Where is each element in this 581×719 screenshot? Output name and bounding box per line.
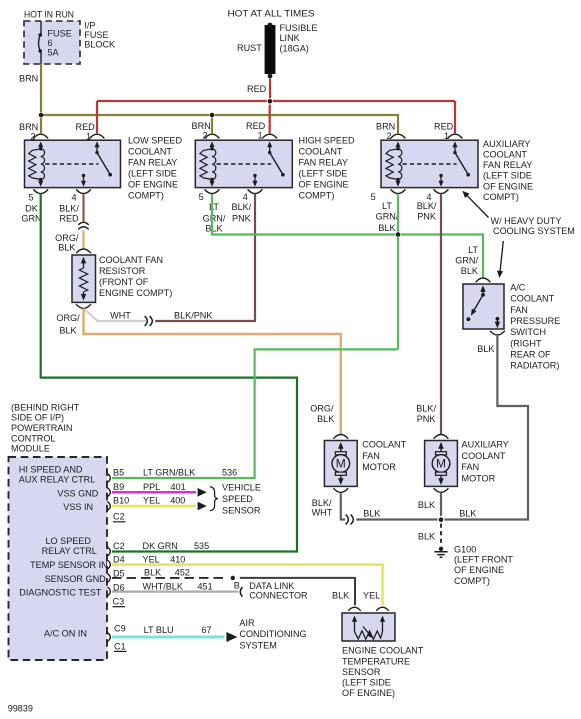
PCM pin B9 label: [113, 482, 124, 492]
relay K3 pin 5 label: [371, 192, 376, 202]
wire ORG/BLK into resistor: [82, 231, 84, 250]
svg-text:BLK/: BLK/: [417, 201, 437, 211]
svg-text:OF ENGINE: OF ENGINE: [128, 180, 178, 190]
svg-text:MODULE: MODULE: [11, 444, 50, 454]
label BLK 452: [144, 568, 190, 578]
svg-text:ENGINE COMPT): ENGINE COMPT): [99, 288, 172, 298]
svg-text:TEMP SENSOR IN: TEMP SENSOR IN: [30, 560, 108, 570]
label BLK (right of junction): [459, 508, 476, 518]
resistor R1 coolant fan resistor: [72, 249, 96, 308]
wire RED from fusible link: [269, 79, 271, 99]
label LT BLU 67: [144, 625, 212, 635]
svg-text:C2: C2: [113, 541, 125, 551]
PCM connector C1 label (underlined): [114, 641, 127, 651]
pressure switch S1 A/C coolant fan pressure switch: [463, 278, 505, 335]
wire YEL 410 to temp sensor: [112, 565, 383, 606]
svg-text:BLK/PNK: BLK/PNK: [174, 310, 212, 320]
label RED (below fusible link): [247, 84, 267, 94]
svg-text:YEL: YEL: [143, 554, 160, 564]
label BRN (fuse output wire): [19, 74, 38, 84]
PCM internal label HI SPEED AND AUX RELAY CTRL: [19, 465, 95, 485]
svg-text:ORG/: ORG/: [310, 404, 334, 414]
svg-text:BLK: BLK: [58, 243, 75, 253]
label BLK/PNK (K2 pin4 wire): [232, 202, 252, 223]
svg-text:WHT: WHT: [110, 311, 131, 321]
svg-text:YEL: YEL: [363, 591, 380, 601]
svg-text:ORG/: ORG/: [56, 313, 80, 323]
label LT GRN/BLK (K3 pin5 wire): [376, 201, 399, 233]
relay K3 auxiliary coolant fan relay: [381, 134, 478, 193]
svg-text:451: 451: [198, 581, 213, 591]
svg-text:FAN: FAN: [462, 462, 480, 472]
wire BLK splice to ground junction: [356, 518, 437, 520]
svg-text:(LEFT SIDE: (LEFT SIDE: [299, 169, 348, 179]
svg-text:LINK: LINK: [280, 33, 300, 43]
relay K2 pin 4 label: [243, 192, 248, 202]
connector in motor ground wire: [346, 515, 354, 525]
svg-text:(LEFT SIDE: (LEFT SIDE: [342, 678, 391, 688]
svg-text:M: M: [336, 457, 346, 471]
svg-text:PNK: PNK: [417, 414, 436, 424]
wire LT GRN/BLK from K2 pin5: [212, 194, 395, 234]
wire ORG/BLK resistor to coolant fan motor: [84, 309, 341, 435]
svg-text:BRN: BRN: [19, 122, 38, 132]
PCM pin C9 label: [114, 624, 126, 634]
PCM pin D5 label: [113, 568, 125, 578]
svg-text:COMPT): COMPT): [128, 191, 164, 201]
svg-text:(LEFT SIDE: (LEFT SIDE: [128, 169, 177, 179]
svg-text:A/C: A/C: [510, 283, 526, 293]
svg-text:LT BLU: LT BLU: [144, 625, 174, 635]
svg-text:VEHICLE: VEHICLE: [222, 483, 261, 493]
wire BLK from pressure switch: [445, 336, 529, 520]
svg-text:DK GRN: DK GRN: [143, 541, 178, 551]
svg-text:PPL: PPL: [143, 482, 160, 492]
relay K2 high speed coolant fan relay: [195, 134, 292, 193]
svg-text:BLK: BLK: [461, 266, 478, 276]
wire BLK/PNK to K2 pin4: [155, 194, 255, 321]
svg-text:1: 1: [86, 131, 91, 141]
svg-text:SENSOR GND: SENSOR GND: [45, 574, 107, 584]
svg-text:BLK/: BLK/: [232, 202, 252, 212]
svg-text:GRN: GRN: [21, 213, 41, 223]
svg-text:BRN: BRN: [19, 74, 38, 84]
junction BRN at fuse drop: [39, 113, 44, 118]
svg-text:RED: RED: [247, 84, 267, 94]
svg-text:PNK: PNK: [232, 213, 251, 223]
svg-text:LT GRN/BLK: LT GRN/BLK: [143, 468, 195, 478]
svg-text:TEMPERATURE: TEMPERATURE: [342, 656, 410, 666]
svg-text:BLK: BLK: [477, 344, 494, 354]
power feed label HOT AT ALL TIMES: [228, 9, 315, 19]
junction BRN above high speed relay: [210, 113, 215, 118]
svg-text:GRN/: GRN/: [203, 213, 226, 223]
svg-text:67: 67: [202, 625, 212, 635]
note W/ HEAVY DUTY COOLING SYSTEM: [491, 216, 575, 236]
svg-text:SWITCH: SWITCH: [510, 327, 546, 337]
motor M1 name label: [362, 439, 406, 472]
wire LT GRN/BLK to PCM B5 (ckt 536): [112, 349, 398, 478]
temp sensor RT1 engine coolant temperature sensor: [342, 607, 395, 641]
svg-text:4: 4: [243, 192, 248, 202]
callout arrow to pressure switch: [497, 241, 503, 278]
svg-text:FAN: FAN: [362, 451, 380, 461]
svg-text:YEL: YEL: [143, 496, 160, 506]
svg-text:CONTROL: CONTROL: [11, 433, 55, 443]
label VEHICLE SPEED SENSOR: [222, 483, 261, 516]
label DATA LINK CONNECTOR: [249, 581, 308, 601]
label BLK/PNK (wire to K2 pin4): [174, 310, 212, 320]
PCM pin B5 label: [113, 468, 124, 478]
svg-text:RADIATOR): RADIATOR): [510, 361, 559, 371]
PCM pin D4 label: [113, 554, 125, 564]
svg-text:2: 2: [31, 131, 36, 141]
relay K2 pin 1 label RED: [246, 121, 266, 141]
svg-text:5: 5: [199, 192, 204, 202]
svg-text:(RIGHT: (RIGHT: [510, 338, 542, 348]
svg-text:SIDE OF I/P): SIDE OF I/P): [11, 413, 64, 423]
svg-text:535: 535: [194, 541, 209, 551]
label YEL 400: [143, 496, 185, 506]
temp sensor RT1 name label: [342, 646, 424, 699]
relay K1 low speed coolant fan relay: [25, 134, 121, 193]
motor M2 name label: [462, 439, 509, 483]
PCM internal label VSS IN: [63, 502, 93, 512]
label DK GRN (K1 pin5 wire): [21, 204, 41, 224]
svg-text:410: 410: [170, 554, 185, 564]
wire BLK dashed to G100: [440, 524, 442, 545]
svg-text:FAN RELAY: FAN RELAY: [128, 158, 177, 168]
arrow to air conditioning system: [226, 632, 237, 642]
svg-text:LT: LT: [382, 201, 392, 211]
svg-text:RUST: RUST: [237, 43, 262, 53]
motor M2 auxiliary coolant fan motor: [425, 435, 458, 493]
svg-text:5: 5: [29, 192, 34, 202]
wire LT GRN/BLK from K3 pin5: [397, 194, 399, 349]
svg-text:BLK: BLK: [363, 508, 380, 518]
wire BLK 452 dashed segment: [112, 577, 226, 579]
svg-text:DK: DK: [25, 204, 38, 214]
wire DK GRN from K1 pin5 to PCM C2: [41, 194, 297, 551]
svg-text:COOLANT: COOLANT: [362, 439, 406, 449]
svg-text:BLK: BLK: [378, 223, 395, 233]
svg-text:GRN/: GRN/: [455, 256, 478, 266]
svg-text:FUSIBLE: FUSIBLE: [280, 23, 318, 33]
svg-text:SPEED: SPEED: [222, 494, 253, 504]
svg-text:(FRONT OF: (FRONT OF: [99, 277, 149, 287]
relay K3 pin 1 label RED: [434, 122, 454, 142]
svg-text:BLK: BLK: [332, 591, 349, 601]
pressure switch S1 name label: [510, 283, 560, 371]
svg-text:BLK: BLK: [144, 568, 161, 578]
svg-text:DATA LINK: DATA LINK: [249, 581, 294, 591]
wire WHT from resistor: [84, 309, 147, 321]
label BLK (at temp sensor): [332, 591, 349, 601]
svg-text:FAN: FAN: [510, 305, 528, 315]
resistor R1 name label: [99, 255, 172, 298]
svg-text:1: 1: [258, 130, 263, 140]
wire YEL 400 to VSS: [112, 505, 196, 508]
svg-text:RED: RED: [59, 213, 79, 223]
svg-text:C3: C3: [113, 597, 125, 607]
svg-text:M: M: [436, 457, 446, 471]
svg-text:COOLANT: COOLANT: [128, 147, 172, 157]
relay K2 name label: [299, 136, 356, 201]
svg-text:WHT: WHT: [312, 507, 333, 517]
svg-text:WHT/BLK: WHT/BLK: [143, 581, 183, 591]
svg-text:D4: D4: [113, 554, 125, 564]
svg-text:SENSOR: SENSOR: [342, 667, 381, 677]
svg-text:AUX RELAY CTRL: AUX RELAY CTRL: [19, 474, 95, 484]
svg-text:LO SPEED: LO SPEED: [46, 536, 92, 546]
wire BLK from M2: [440, 493, 442, 516]
relay K1 pin 4 label: [72, 192, 77, 202]
svg-text:BLK: BLK: [418, 500, 435, 510]
label ORG/BLK (at coolant fan motor): [310, 404, 334, 424]
svg-text:99839: 99839: [8, 703, 33, 713]
svg-text:452: 452: [175, 568, 190, 578]
svg-text:FAN RELAY: FAN RELAY: [483, 160, 532, 170]
PCM internal label TEMP SENSOR IN: [30, 560, 108, 570]
wire BLK/PNK from K3 pin4 to aux motor: [440, 194, 442, 434]
relay K1 pin 2 label BRN: [19, 122, 38, 142]
svg-text:BLK/: BLK/: [416, 404, 436, 414]
data link connector pin B: [234, 581, 243, 597]
svg-text:PRESSURE: PRESSURE: [510, 316, 560, 326]
svg-text:A/C ON IN: A/C ON IN: [44, 629, 87, 639]
svg-text:RED: RED: [434, 122, 454, 132]
svg-text:HOT IN RUN: HOT IN RUN: [24, 10, 74, 20]
label BLK (ground leg): [418, 531, 435, 541]
label RUST: [237, 43, 262, 53]
svg-text:RESISTOR: RESISTOR: [99, 266, 146, 276]
svg-text:GRN/: GRN/: [376, 212, 399, 222]
svg-text:MOTOR: MOTOR: [362, 462, 396, 472]
label ORG/BLK (above resistor): [55, 233, 79, 252]
label AIR CONDITIONING SYSTEM: [239, 618, 306, 651]
label DK GRN 535: [143, 541, 210, 551]
PCM pin B10 label: [113, 496, 129, 506]
svg-text:FUSE: FUSE: [48, 28, 72, 38]
PCM connector C3 label (underlined): [113, 597, 126, 607]
label BLK/PNK (at aux motor): [416, 404, 436, 424]
junction in sensor ground wire: [231, 576, 235, 580]
svg-text:PNK: PNK: [417, 212, 436, 222]
brace for vehicle speed sensor: [210, 487, 218, 511]
fusible link (18GA) RUST: [265, 23, 276, 79]
wire BRN from fuse to bus: [40, 64, 42, 112]
svg-text:4: 4: [72, 192, 77, 202]
junction G100 node: [439, 517, 444, 522]
svg-text:C9: C9: [114, 624, 126, 634]
svg-text:COOLANT: COOLANT: [510, 294, 554, 304]
diagram number label: [8, 703, 33, 713]
PCM internal label VSS GND: [57, 489, 98, 499]
svg-text:(LEFT SIDE: (LEFT SIDE: [483, 171, 532, 181]
svg-text:ENGINE COOLANT: ENGINE COOLANT: [342, 646, 424, 656]
label FUSIBLE LINK (18GA): [280, 23, 318, 53]
svg-text:COOLANT FAN: COOLANT FAN: [99, 255, 163, 265]
svg-text:I/P: I/P: [84, 20, 95, 30]
label BLK (below M2): [418, 500, 435, 510]
svg-text:2: 2: [387, 131, 392, 141]
svg-text:400: 400: [170, 496, 185, 506]
relay K1 name label: [128, 136, 183, 201]
relay K3 pin 4 label: [427, 192, 432, 202]
svg-text:OF ENGINE: OF ENGINE: [483, 181, 533, 191]
label I/P FUSE BLOCK: [84, 20, 115, 49]
svg-text:COOLANT: COOLANT: [483, 150, 527, 160]
relay K2 pin 5 label: [199, 192, 204, 202]
svg-text:FAN RELAY: FAN RELAY: [299, 158, 348, 168]
PCM connector C2 label (underlined): [113, 512, 126, 522]
label YEL (at temp sensor): [363, 591, 380, 601]
relay K1 pin 1 label RED: [76, 122, 96, 142]
svg-text:CONNECTOR: CONNECTOR: [249, 590, 308, 600]
wire BLK from M1 to splice: [341, 493, 345, 519]
ground G100 label: [454, 544, 513, 586]
svg-text:CONDITIONING: CONDITIONING: [239, 629, 306, 639]
wire BLK 452 to temp sensor: [240, 578, 355, 605]
PCM location label: [11, 402, 80, 453]
svg-text:(LEFT FRONT: (LEFT FRONT: [454, 555, 513, 565]
svg-text:POWERTRAIN: POWERTRAIN: [11, 423, 72, 433]
svg-text:LT: LT: [209, 202, 219, 212]
PCM pin C2 label (lo speed): [113, 541, 125, 551]
svg-text:BLK/: BLK/: [59, 204, 79, 214]
svg-text:SYSTEM: SYSTEM: [239, 641, 276, 651]
PCM pin connector arcs: [107, 473, 110, 641]
svg-text:BRN: BRN: [376, 122, 395, 132]
svg-text:RELAY CTRL: RELAY CTRL: [42, 546, 97, 556]
motor M1 coolant fan motor: [324, 435, 357, 493]
svg-text:D5: D5: [113, 568, 125, 578]
label WHT: [110, 311, 131, 321]
PCM U1 powertrain control module (dashed box): [9, 457, 108, 660]
svg-text:SENSOR: SENSOR: [222, 505, 261, 515]
junction RED below fusible link: [268, 99, 273, 104]
connector in BLK/RED wire: [78, 222, 88, 229]
svg-text:DIAGNOSTIC TEST: DIAGNOSTIC TEST: [19, 587, 102, 597]
fuse block box (dashed, I/P fuse block): [24, 21, 80, 64]
svg-text:5A: 5A: [48, 47, 60, 57]
svg-text:BRN: BRN: [192, 121, 211, 131]
svg-text:BLK: BLK: [205, 224, 222, 234]
PCM internal label A/C ON IN: [44, 629, 87, 639]
wire RED bus: [97, 101, 455, 133]
svg-text:LOW SPEED: LOW SPEED: [128, 136, 183, 146]
relay K3 name label: [483, 139, 533, 202]
svg-text:OF ENGINE: OF ENGINE: [454, 565, 504, 575]
label PPL 401: [143, 482, 186, 492]
svg-text:B9: B9: [113, 482, 124, 492]
svg-text:1: 1: [444, 131, 449, 141]
fuse value label FUSE 6 5A: [48, 28, 72, 57]
svg-text:OF ENGINE: OF ENGINE: [299, 180, 349, 190]
relay K1 pin 5 label: [29, 192, 34, 202]
svg-text:B10: B10: [113, 496, 129, 506]
svg-text:RED: RED: [76, 122, 96, 132]
callout arrow to relay K3: [462, 191, 488, 218]
svg-text:BLOCK: BLOCK: [84, 40, 115, 50]
label ORG/BLK (below resistor): [56, 313, 80, 335]
label BLK/WHT (below M1): [312, 498, 333, 517]
svg-text:B: B: [234, 581, 240, 591]
svg-text:COOLANT: COOLANT: [462, 451, 506, 461]
arrow to vehicle speed sensor (PPL): [198, 488, 207, 497]
svg-text:AUXILIARY: AUXILIARY: [483, 139, 530, 149]
fuse F6 5A symbol: [38, 22, 42, 65]
junction LT GRN/BLK node: [396, 232, 401, 237]
svg-text:HI SPEED AND: HI SPEED AND: [19, 465, 83, 475]
ground G100: [434, 547, 447, 558]
svg-text:OF ENGINE): OF ENGINE): [342, 688, 395, 698]
svg-text:5: 5: [371, 192, 376, 202]
PCM internal label LO SPEED RELAY CTRL: [42, 536, 97, 556]
svg-text:COMPT): COMPT): [483, 192, 519, 202]
svg-text:(BEHIND RIGHT: (BEHIND RIGHT: [11, 402, 80, 412]
svg-text:BLK: BLK: [317, 414, 334, 424]
arrow to vehicle speed sensor (YEL): [198, 502, 207, 511]
svg-text:HOT AT ALL TIMES: HOT AT ALL TIMES: [228, 9, 315, 19]
svg-text:AUXILIARY: AUXILIARY: [462, 439, 509, 449]
PCM pin D6 label: [113, 582, 125, 592]
svg-text:AIR: AIR: [239, 618, 255, 628]
wire LT GRN/BLK to pressure switch: [401, 235, 483, 278]
svg-text:LT: LT: [468, 245, 478, 255]
PCM internal label SENSOR GND: [45, 574, 107, 584]
label LT GRN/BLK (K2 pin5 wire): [203, 202, 226, 234]
relay K3 pin 2 label BRN: [376, 122, 395, 142]
svg-text:HIGH SPEED: HIGH SPEED: [299, 136, 356, 146]
label YEL 410: [143, 554, 186, 564]
svg-text:COMPT): COMPT): [454, 576, 490, 586]
svg-text:B5: B5: [113, 468, 124, 478]
label BLK (after connector): [363, 508, 380, 518]
svg-text:W/ HEAVY DUTY: W/ HEAVY DUTY: [491, 216, 562, 226]
svg-text:2: 2: [203, 130, 208, 140]
svg-text:401: 401: [171, 482, 186, 492]
wire PPL 401 to VSS: [112, 491, 196, 494]
svg-text:COOLING SYSTEM: COOLING SYSTEM: [493, 226, 575, 236]
svg-text:RED: RED: [246, 121, 266, 131]
wire LT BLU 67 to A/C system: [112, 636, 225, 639]
svg-text:VSS GND: VSS GND: [57, 489, 98, 499]
label BLK (pressure switch leg): [477, 344, 494, 354]
power feed label HOT IN RUN: [24, 10, 74, 20]
svg-text:C1: C1: [114, 641, 126, 651]
svg-text:C2: C2: [113, 512, 125, 522]
wire WHT/BLK 451 to DLC: [112, 590, 238, 592]
svg-text:VSS IN: VSS IN: [63, 502, 93, 512]
svg-text:COOLANT: COOLANT: [299, 147, 343, 157]
connector in WHT/BLKPNK wire: [145, 316, 153, 326]
svg-text:COMPT): COMPT): [299, 191, 335, 201]
svg-text:FUSE: FUSE: [84, 30, 108, 40]
svg-text:REAR OF: REAR OF: [510, 349, 551, 359]
svg-text:G100: G100: [454, 544, 476, 554]
label WHT/BLK 451: [143, 581, 213, 591]
svg-text:536: 536: [222, 468, 237, 478]
label BLK/RED (K1 pin4 wire): [59, 204, 79, 224]
label BLK/PNK (K3 pin4 wire): [417, 201, 437, 221]
label LT GRN/BLK 536: [143, 468, 237, 478]
wire BRN bus: [41, 115, 398, 133]
label LT GRN/BLK (at pressure switch): [455, 245, 478, 276]
svg-text:MOTOR: MOTOR: [462, 474, 496, 484]
svg-text:BLK: BLK: [459, 508, 476, 518]
svg-text:BLK: BLK: [418, 531, 435, 541]
